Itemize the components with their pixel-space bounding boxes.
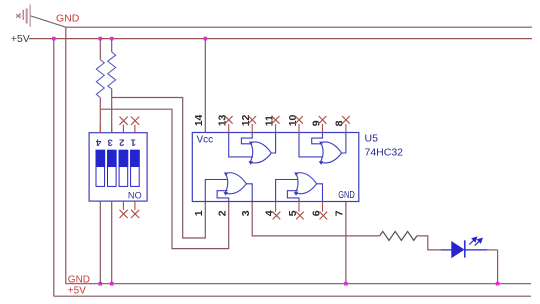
no-connect X pin10	[295, 116, 303, 133]
resistor R3	[380, 231, 417, 240]
DIP switch digits (rotated 180)	[95, 137, 136, 148]
DIP switch slots	[96, 150, 139, 186]
gate U5:B input pin4 routing	[276, 180, 298, 202]
DIP no-connect X col3 top	[120, 117, 128, 133]
svg-text:GND: GND	[338, 190, 355, 201]
wire LED to GND rail	[497, 250, 499, 284]
svg-text:+5V: +5V	[11, 33, 30, 45]
no-connect X pin6	[320, 202, 328, 220]
wire +5V rail	[29, 38, 532, 40]
gate U5:C output to pin8	[342, 133, 346, 154]
DIP no-connect X col3 bottom	[120, 201, 128, 218]
wire top GND rail	[66, 26, 532, 28]
svg-text:4: 4	[95, 137, 101, 148]
svg-text:10: 10	[287, 114, 299, 126]
wire resistor R2 branch	[111, 39, 113, 52]
battery unconnected pin X	[16, 14, 20, 18]
wire GND left vertical	[65, 27, 67, 284]
gate U5:D OR body	[250, 142, 271, 163]
no-connect X pin11	[272, 116, 280, 133]
wire pin7 to GND	[345, 202, 347, 284]
svg-text:GND: GND	[56, 13, 80, 25]
LED D1	[452, 242, 464, 257]
IC U5 box	[192, 133, 358, 202]
gate U5:A input pin1 routing	[205, 180, 227, 202]
wire battery to GND corner	[31, 16, 66, 27]
svg-text:U5: U5	[365, 133, 379, 145]
svg-text:3: 3	[107, 137, 112, 148]
gate U5:D output to pin11	[271, 133, 275, 154]
gate U5:D input pin13 routing	[229, 133, 253, 157]
gate U5:A output to pin3	[246, 184, 252, 202]
no-connect X pin9	[319, 116, 327, 133]
wire pin3 to resistor R3	[252, 202, 379, 236]
svg-text:2: 2	[217, 210, 229, 216]
junction dots on +5V rail	[52, 37, 207, 41]
svg-text:3: 3	[240, 210, 252, 216]
gate U5:C input pin9 routing	[312, 133, 323, 144]
gate U5:C input pin10 routing	[299, 133, 323, 157]
LED D1 arrows	[469, 237, 482, 245]
svg-text:1: 1	[193, 210, 205, 216]
gate U5:D input pin12 routing	[241, 133, 252, 144]
svg-text:Vcc: Vcc	[197, 134, 214, 145]
LED cathode lead	[465, 249, 487, 251]
wire R2 to switch	[111, 89, 113, 133]
no-connect X pin4	[273, 202, 281, 220]
gate U5:B input pin5 routing	[287, 191, 299, 202]
no-connect X pin5	[296, 202, 304, 220]
DIP no-connect X col4 bottom	[131, 201, 139, 218]
svg-text:GND: GND	[68, 275, 90, 286]
junction dots on GND bottom rail	[99, 282, 500, 286]
DIP pin wires cols 1,2 bottom to GND rail	[99, 201, 101, 284]
wire LED lead to corner	[487, 249, 498, 251]
DIP no-connect X col4 top	[131, 117, 139, 133]
wire R3 to LED	[417, 236, 441, 250]
resistor R2	[108, 52, 116, 89]
svg-text:12: 12	[240, 114, 252, 126]
wire net B (R1 to pin2)	[100, 109, 228, 248]
no-connect X pin12	[248, 116, 256, 133]
DIP switch SW1 box	[89, 133, 147, 201]
LED D1 anode lead	[441, 249, 452, 251]
gate U5:C OR body	[320, 142, 341, 163]
svg-text:74HC32: 74HC32	[365, 147, 404, 159]
wire +5V left vertical	[53, 39, 55, 297]
svg-text:1: 1	[130, 137, 136, 148]
svg-text:11: 11	[263, 115, 275, 126]
wire R1 to switch	[99, 98, 101, 133]
no-connect X pin8	[342, 116, 350, 133]
DIP pin stubs cols 1,2 top	[99, 125, 101, 133]
battery BT1	[20, 4, 30, 27]
gate U5:B OR body	[295, 173, 316, 194]
svg-text:14: 14	[193, 114, 205, 126]
gate U5:B output to pin6	[317, 184, 323, 202]
wire resistor R1 branch	[99, 39, 101, 60]
wire GND bottom rail	[66, 283, 531, 285]
wire +5V bottom rail	[54, 295, 531, 297]
no-connect X pin13	[225, 116, 233, 133]
gate U5:A OR body	[225, 173, 246, 194]
resistor R1	[96, 60, 104, 98]
svg-text:ON: ON	[128, 190, 142, 200]
svg-text:+5V: +5V	[68, 286, 86, 297]
svg-text:13: 13	[217, 114, 229, 126]
svg-text:2: 2	[119, 137, 124, 148]
wire net A (R2 to pin1)	[112, 98, 206, 239]
svg-text:7: 7	[334, 210, 346, 216]
gate U5:A input pin2 routing	[217, 191, 229, 202]
wire pin14 to +5V	[204, 39, 206, 133]
